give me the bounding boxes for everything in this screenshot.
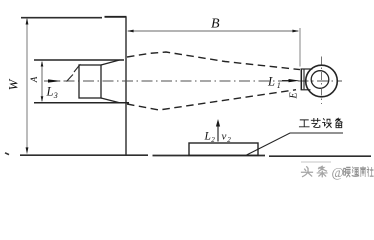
label A bbox=[29, 76, 39, 83]
dimension B right arrow bbox=[292, 30, 299, 33]
ceiling line (right segment) bbox=[105, 16, 127, 18]
label E (rotated) bbox=[288, 92, 299, 99]
svg-text:2: 2 bbox=[227, 136, 231, 144]
svg-text:@: @ bbox=[332, 165, 344, 180]
top jet boundary (dashed) bbox=[127, 52, 300, 70]
watermark 条 (tiao) bbox=[317, 166, 327, 177]
watermark 南 (nan) bbox=[360, 167, 365, 177]
slot top line bbox=[34, 59, 124, 61]
dimension W line bbox=[26, 19, 28, 152]
hood vertical centerline bbox=[321, 57, 323, 105]
svg-text:B: B bbox=[211, 17, 220, 32]
leader line to equipment label bbox=[247, 133, 344, 155]
watermark 通 (tong) bbox=[352, 167, 359, 176]
label 备 (bei) bbox=[336, 118, 343, 127]
dimension A arrow down bbox=[41, 96, 44, 102]
svg-text:2: 2 bbox=[211, 136, 215, 144]
emission arrow up bbox=[217, 125, 219, 142]
label W bbox=[5, 78, 20, 90]
hood inner circle bbox=[311, 71, 329, 89]
hood flange bottom edge bbox=[301, 89, 311, 91]
svg-text:L: L bbox=[204, 131, 211, 143]
svg-text:W: W bbox=[5, 78, 20, 90]
svg-text:v: v bbox=[222, 131, 227, 143]
dimension W arrow up bbox=[26, 18, 29, 25]
nozzle duct rectangle bbox=[79, 65, 101, 98]
break marks on duct bbox=[67, 64, 81, 81]
dimension W arrow down bbox=[26, 147, 29, 154]
hood flange left edge (double line) bbox=[300, 69, 302, 91]
watermark 社 (she) bbox=[367, 167, 373, 176]
hood outer circle bbox=[306, 65, 338, 97]
flare top diagonal bbox=[101, 60, 120, 65]
bottom jet boundary (dashed) bbox=[127, 90, 296, 110]
svg-text:A: A bbox=[29, 76, 39, 83]
slot bottom line bbox=[34, 102, 129, 104]
dimension A line bbox=[41, 62, 43, 101]
dimension B left arrow bbox=[127, 30, 134, 33]
watermark toutiao bar bbox=[301, 161, 331, 163]
wall bbox=[125, 17, 127, 156]
dimension B line bbox=[128, 30, 298, 32]
centerline (horizontal chain line) bbox=[44, 80, 342, 82]
svg-text:L: L bbox=[267, 75, 275, 89]
flare bottom diagonal bbox=[101, 98, 120, 103]
svg-text:1: 1 bbox=[277, 81, 281, 90]
svg-text:L: L bbox=[46, 85, 54, 99]
ceiling line (left segment) bbox=[21, 17, 102, 19]
dimension A arrow up bbox=[41, 61, 44, 67]
label 设 (she) bbox=[323, 119, 332, 128]
watermark 暖 (nuan) bbox=[344, 167, 351, 176]
scan speck at floor left bbox=[5, 153, 9, 155]
flow arrow L3 bbox=[48, 79, 62, 82]
floor line bbox=[20, 155, 371, 156]
watermark 头 (tou) bbox=[302, 167, 313, 177]
svg-text:E: E bbox=[288, 92, 299, 99]
extension line for B at hood bbox=[299, 28, 301, 67]
suction arrow L1 bbox=[282, 80, 291, 82]
hood flange top edge bbox=[301, 68, 313, 70]
label 艺 (yi) bbox=[311, 118, 320, 127]
label 工 (gong) bbox=[299, 120, 309, 127]
process equipment box bbox=[189, 143, 258, 155]
svg-text:3: 3 bbox=[53, 91, 58, 100]
